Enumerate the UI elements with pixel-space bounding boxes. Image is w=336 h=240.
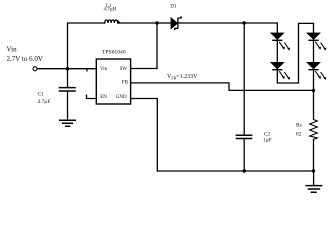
wire: FB pin feedback line to sense node — [131, 83, 314, 91]
wire: Rs to ground rail — [313, 139, 315, 171]
wire: VIN input line from terminal to IC VIN pin — [37, 68, 96, 70]
svg-text:1µF: 1µF — [263, 137, 272, 143]
svg-text:VFB=1.233V: VFB=1.233V — [167, 74, 198, 81]
diode D1 Schottky — [171, 16, 181, 30]
svg-text:D1: D1 — [170, 5, 177, 10]
wire: top rail from input corner to inductor L1 — [68, 23, 105, 69]
wire: LED4 cathode to feedback sense node — [313, 70, 315, 90]
wire: input junction down to capacitor C1 — [67, 69, 69, 87]
wire: EN pin stub with up-hook — [87, 95, 97, 98]
wire: LED3 cathode to LED4 anode — [313, 41, 315, 63]
svg-text:C1: C1 — [38, 91, 45, 97]
svg-text:2.7V to 6.0V: 2.7V to 6.0V — [7, 55, 43, 63]
svg-text:4.7µH: 4.7µH — [104, 8, 117, 13]
LED4 — [307, 62, 327, 80]
wire: LED2 cathode to riser, up and over to LED string 2 — [277, 23, 313, 83]
ground: input ground symbol — [60, 120, 76, 126]
svg-text:Vin: Vin — [7, 46, 18, 54]
wire: D1 cathode to output rail and down to LED string 1 — [178, 23, 277, 33]
op-amp/IC U1 TPS61040 box — [96, 59, 130, 104]
node: Rs ground junction — [312, 169, 315, 172]
svg-text:82: 82 — [296, 132, 302, 138]
capacitor C2 — [236, 135, 251, 138]
terminal: VIN input terminal — [33, 67, 37, 71]
svg-text:EN: EN — [100, 95, 107, 100]
svg-text:4.7µF: 4.7µF — [38, 99, 51, 105]
wire: ground rail to output ground symbol — [313, 171, 315, 185]
LED3 — [307, 33, 327, 51]
wire: sense node to resistor Rs — [313, 90, 315, 119]
node: input junction — [66, 67, 69, 70]
node: output junction at C2 — [243, 21, 246, 24]
wire: SW pin to switch node — [131, 23, 157, 69]
svg-text:Vin: Vin — [100, 67, 108, 72]
wire: LED1 cathode to LED2 anode — [276, 41, 278, 63]
svg-text:TPS61040: TPS61040 — [102, 50, 126, 56]
node: switch node junction — [155, 21, 158, 24]
LED2 — [271, 62, 291, 80]
svg-text:GND: GND — [116, 95, 127, 100]
wire: switch node to D1 anode — [157, 22, 171, 24]
inductor L1 — [105, 20, 120, 23]
ground: output ground symbol — [306, 186, 321, 193]
LED1 — [271, 33, 291, 51]
svg-text:FB: FB — [122, 80, 129, 85]
wire: C2 to ground rail — [243, 139, 245, 171]
node: feedback sense node — [312, 89, 315, 92]
wire: output junction down to capacitor C2 — [243, 23, 245, 135]
wire: L1 to switch node — [118, 22, 157, 24]
wire: C1 to input ground — [67, 92, 69, 120]
node: C2 ground junction — [243, 169, 246, 172]
wire: GND pin down to ground rail — [131, 99, 158, 172]
svg-text:SW: SW — [120, 67, 128, 72]
svg-text:Rs: Rs — [296, 123, 302, 129]
wire: stub tick below VIN line — [86, 69, 88, 71]
capacitor C1 — [60, 88, 76, 91]
resistor Rs — [310, 120, 318, 140]
wire: ground rail — [157, 170, 313, 172]
